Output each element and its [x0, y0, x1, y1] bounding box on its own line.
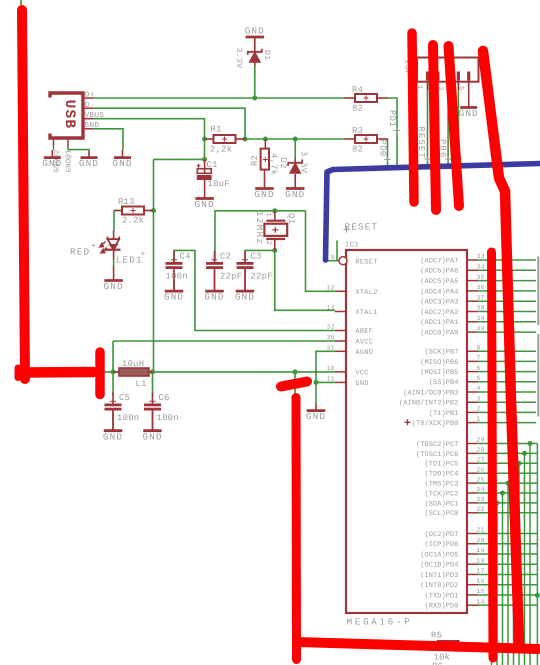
svg-text:39: 39: [477, 315, 485, 322]
svg-text:12MHz: 12MHz: [254, 211, 264, 245]
wire D- net: USB D- down to R1 line: [93, 108, 245, 139]
svg-text:29: 29: [477, 437, 485, 444]
svg-text:(SCK)PB7: (SCK)PB7: [424, 348, 458, 357]
ground: ISP connector: [459, 82, 479, 119]
svg-text:7: 7: [477, 355, 481, 362]
svg-text:GND@1: GND@1: [65, 149, 74, 172]
ground: IC GND pin: [306, 404, 326, 423]
IC1 pin 1 (T0/XCK)PB0: [412, 416, 536, 428]
resistor R1 2,2k: [205, 138, 246, 140]
IC1 pin 13 XTAL1: [327, 305, 378, 318]
svg-text:+: +: [141, 250, 146, 259]
ISP pad 5: [447, 72, 450, 81]
ISP pad 9: [467, 72, 470, 81]
svg-text:AGND: AGND: [355, 349, 373, 357]
svg-text:D-: D-: [85, 102, 95, 110]
svg-text:100n: 100n: [166, 272, 188, 282]
svg-text:(AIN0/INT2)PB2: (AIN0/INT2)PB2: [399, 399, 459, 408]
IC1 pin 11 GND: [327, 376, 369, 389]
IC1 pin 23 (SDA)PC1: [424, 496, 537, 665]
wire: LED1 cathode to GND: [113, 260, 115, 267]
junction: [272, 248, 277, 253]
wire XTAL1 net: C3 to Q1 pin2: [245, 250, 275, 262]
svg-text:GND: GND: [164, 292, 184, 303]
svg-text:MEGA16-P: MEGA16-P: [347, 617, 413, 628]
IC1 pin 6 (MOSI)PB5: [420, 365, 536, 377]
svg-text:C5: C5: [119, 393, 130, 403]
svg-text:RESET: RESET: [345, 222, 379, 233]
IC1 pin 18 (OC1B)PD4: [420, 557, 537, 569]
svg-text:(SDA)PC1: (SDA)PC1: [424, 499, 458, 508]
junction: [151, 208, 156, 213]
svg-text:8: 8: [477, 344, 481, 351]
wire D+ net: R4 to PD1 label stub: [388, 98, 397, 170]
label net PD1: [387, 110, 400, 134]
svg-text:4,7k: 4,7k: [268, 153, 278, 175]
svg-text:16: 16: [477, 578, 485, 585]
svg-text:5: 5: [477, 375, 481, 382]
bus (gray) right edge segment 1: [537, 257, 539, 326]
svg-text:C1: C1: [207, 160, 218, 170]
svg-text:IC1: IC1: [345, 242, 359, 250]
ground: C1: [195, 182, 215, 210]
wire: ISP pin7 down (PB5): [457, 82, 459, 168]
marker stroke: bottom-left long vertical: [292, 398, 302, 660]
ground: D2: [285, 174, 305, 200]
wire: USB GND@2 to GND: [53, 146, 55, 150]
ground: C3: [235, 270, 255, 303]
USB pin GND: [83, 121, 99, 130]
svg-text:(ADC6)PA6: (ADC6)PA6: [420, 267, 458, 276]
marker stroke: ISP area 1: [412, 33, 414, 202]
svg-text:28: 28: [477, 447, 485, 454]
svg-text:GND: GND: [245, 25, 265, 36]
IC1 pin 25 (TMS)PC3: [424, 476, 537, 665]
IC1 pin 16 (INT0)PD2: [420, 578, 537, 590]
IC1 pin 24 (TCK)PC2: [424, 486, 537, 665]
svg-text:10uH: 10uH: [122, 359, 144, 369]
connector X1 USB: [50, 93, 83, 138]
wire XTAL2 net: C2 up and right over Q1: [215, 211, 306, 261]
label net RESET near IC: [343, 222, 378, 233]
IC1 pin 31 AGND: [327, 345, 374, 358]
USB pin GND@1: [65, 138, 74, 173]
svg-text:3.3V: 3.3V: [299, 151, 309, 174]
ISP pad 3: [436, 72, 439, 81]
svg-text:2,2k: 2,2k: [210, 145, 232, 155]
svg-text:(ADC5)PA5: (ADC5)PA5: [420, 277, 458, 286]
resistor R4 82: [345, 97, 389, 99]
svg-text:(INT1)PD3: (INT1)PD3: [420, 571, 458, 580]
ground: USB GND@1 net: [79, 151, 99, 169]
svg-text:Q1: Q1: [286, 213, 296, 225]
svg-text:PD0: PD0: [378, 140, 388, 157]
wire: R13 right to VCC vertical: [144, 210, 154, 212]
svg-text:1: 1: [477, 416, 481, 423]
junction: [293, 137, 298, 142]
svg-text:(RXD)PD0: (RXD)PD0: [424, 602, 458, 611]
capacitor C3 plates: [237, 251, 273, 290]
svg-text:(TCK)PC2: (TCK)PC2: [424, 489, 458, 498]
wire: L1 left node down to C5: [112, 372, 114, 395]
marker stroke: long diagonal right: [483, 51, 519, 643]
IC1 pin 40 (ADC0)PA0: [420, 325, 536, 337]
IC1 pin 39 (ADC1)PA1: [420, 315, 536, 327]
svg-text:10: 10: [327, 365, 335, 372]
svg-text:15: 15: [477, 588, 485, 595]
svg-text:3: 3: [477, 395, 481, 402]
svg-text:(OC2)PD7: (OC2)PD7: [424, 530, 458, 539]
svg-text:C2: C2: [220, 252, 231, 262]
wire XTAL2 net: down to IC pin 12: [306, 211, 335, 291]
svg-text:C3: C3: [251, 252, 262, 262]
wire VBUS: USB VBUS to R1 left node: [93, 119, 204, 139]
marker stroke: small tilted near VCC pin: [281, 382, 307, 387]
svg-text:1: 1: [264, 213, 272, 217]
ISP pad 7: [457, 72, 460, 81]
svg-text:5: 5: [457, 86, 465, 91]
svg-text:23: 23: [477, 496, 485, 503]
svg-text:LED1: LED1: [116, 254, 143, 265]
ground: USB GND@2: [42, 150, 62, 169]
junction: [150, 369, 155, 374]
svg-text:30: 30: [327, 334, 335, 341]
svg-text:2: 2: [477, 406, 481, 413]
wire: D2 to R1-R3 line: [294, 139, 296, 159]
IC1 pin 27 (TDI)PC5: [424, 457, 537, 665]
svg-text:GND: GND: [204, 292, 224, 303]
svg-text:RED: RED: [70, 246, 90, 257]
wire D+ net: USB D+ to R4: [93, 97, 344, 99]
wire VCC net: R1 left down to C1 node: [204, 139, 206, 159]
svg-text:D2: D2: [278, 158, 288, 169]
svg-text:14: 14: [477, 598, 485, 605]
svg-text:33: 33: [477, 253, 485, 260]
svg-text:R3: R3: [352, 126, 363, 136]
IC1 pin 22 (SCL)PC0: [424, 506, 537, 665]
svg-text:R2: R2: [250, 155, 260, 166]
svg-text:20: 20: [477, 537, 485, 544]
IC1 pin 14 (RXD)PD0: [424, 598, 537, 610]
resistor R13 2.2k: [114, 210, 154, 212]
junction: [535, 593, 540, 598]
svg-text:VBUS: VBUS: [85, 111, 105, 120]
USB pin D+: [83, 92, 95, 100]
IC1 pin 19 (OC1A)PD5: [420, 547, 537, 559]
svg-text:24: 24: [477, 486, 485, 493]
IC1 pin 8 (SCK)PB7: [424, 344, 536, 356]
svg-text:(INT0)PD2: (INT0)PD2: [420, 581, 458, 590]
junction: [263, 137, 268, 142]
marker stroke: tick at left end: [15, 368, 22, 378]
IC1 pin 26 (TDO)PC4: [424, 466, 537, 665]
svg-text:GND: GND: [42, 158, 62, 169]
wire: vertical net at right edge x537: [536, 444, 538, 665]
svg-text:GND: GND: [104, 281, 124, 292]
svg-text:13: 13: [327, 305, 335, 312]
svg-text:GND: GND: [142, 431, 162, 442]
ground GND above D1 (inverted): [245, 25, 265, 52]
svg-text:17: 17: [477, 568, 485, 575]
junction: [272, 208, 277, 213]
svg-text:(T1)PB1: (T1)PB1: [429, 409, 459, 418]
IC1 pin 7 (MISO)PB6: [420, 355, 536, 367]
svg-text:GND: GND: [85, 121, 100, 130]
label LED1 name: [116, 250, 146, 265]
svg-text:PD1: PD1: [387, 110, 397, 127]
resistor R3 82: [345, 138, 389, 140]
svg-text:22pF: 22pF: [220, 272, 242, 282]
IC1 pin 33 (ADC7)PA7: [420, 253, 536, 265]
wire: USB GND pin to GND symbol: [93, 129, 123, 150]
LED LED1 RED: [100, 230, 121, 259]
svg-text:19: 19: [477, 547, 485, 554]
svg-text:(ICP)PD6: (ICP)PD6: [424, 540, 458, 549]
wire: ISP pin1 down (RESET): [427, 82, 429, 168]
diode D1 zener symbol: [248, 49, 262, 63]
IC1 pin 9 RESET (bubble): [331, 254, 378, 267]
svg-text:C4: C4: [180, 252, 191, 262]
resistor R3 body: [355, 135, 377, 143]
wire: USB GND@1 to GND: [68, 146, 89, 151]
svg-text:(TOSC1)PC6: (TOSC1)PC6: [416, 450, 459, 459]
diode D1 zener 3.3V: [248, 49, 262, 66]
svg-text:25: 25: [477, 476, 485, 483]
svg-text:38: 38: [477, 305, 485, 312]
ground: C4: [164, 270, 184, 303]
svg-text:R1: R1: [211, 125, 222, 135]
svg-text:32: 32: [327, 324, 335, 331]
svg-text:XTAL1: XTAL1: [355, 309, 377, 317]
svg-text:AREF: AREF: [355, 328, 373, 336]
svg-text:18: 18: [477, 557, 485, 564]
svg-text:GND: GND: [306, 411, 326, 422]
IC1 pin 34 (ADC6)PA6: [420, 264, 536, 276]
svg-text:2: 2: [264, 241, 272, 245]
IC1 pin 37 (ADC3)PA3: [420, 294, 536, 306]
junction: [202, 157, 207, 162]
IC1 pin 29 (TOSC2)PC7: [416, 437, 537, 665]
svg-text:10uF: 10uF: [208, 179, 230, 189]
svg-text:(TXD)PD1: (TXD)PD1: [424, 591, 458, 600]
svg-text:R5: R5: [431, 631, 442, 641]
svg-text:9: 9: [331, 254, 335, 261]
wire D- net: R3 to PD0 label stub: [387, 139, 390, 170]
svg-text:(MOSI)PB5: (MOSI)PB5: [420, 368, 458, 377]
USB pin D-: [83, 102, 95, 110]
junction: [243, 137, 248, 142]
wire: GND node down to GND symbol: [315, 382, 317, 403]
svg-text:GND: GND: [285, 189, 305, 200]
svg-text:L1: L1: [136, 379, 147, 389]
svg-text:31: 31: [327, 345, 335, 352]
inductor L1 10uH: [113, 368, 153, 376]
IC1 pin 10 VCC: [327, 365, 369, 378]
junction: [314, 380, 319, 385]
wire VCC net: drop to bottom (under marker): [294, 372, 296, 644]
marker stroke: right vertical 2: [492, 252, 494, 658]
IC1 pin 15 (TXD)PD1: [424, 588, 537, 600]
ground: C5: [103, 410, 123, 443]
wire VCC net: C1 node left: [154, 158, 205, 160]
marker stroke: left horizontal: [21, 367, 93, 378]
marker stroke: ISP area 2: [433, 45, 436, 210]
svg-text:4: 4: [477, 385, 481, 392]
svg-text:R4: R4: [352, 85, 363, 95]
IC1 pin 36 (ADC4)PA4: [420, 284, 536, 296]
svg-text:USB: USB: [61, 100, 77, 130]
capacitor C5 plates: [105, 393, 140, 432]
svg-text:(ADC1)PA1: (ADC1)PA1: [420, 318, 458, 327]
marker stroke: long left vertical: [22, 10, 25, 379]
svg-text:22: 22: [477, 506, 485, 513]
IC1 pin 2 (T1)PB1: [429, 406, 536, 418]
svg-text:22pF: 22pF: [251, 272, 273, 282]
svg-text:(SCL)PC0: (SCL)PC0: [424, 509, 458, 518]
svg-text:GND: GND: [235, 292, 255, 303]
IC1 pin 3 (AIN0/INT2)PB2: [399, 395, 536, 407]
svg-text:6: 6: [477, 365, 481, 372]
label net PB5: [449, 139, 462, 162]
IC1 pin 32 AREF: [327, 324, 374, 337]
svg-text:37: 37: [477, 294, 485, 301]
ISP pad 1: [426, 72, 429, 81]
wire: L1 right node down to C6: [152, 372, 154, 395]
svg-text:40: 40: [477, 325, 485, 332]
svg-text:12: 12: [327, 285, 335, 292]
wire GND net: to IC pin 11: [316, 381, 335, 383]
IC1 pin 4 (AIN1/OC0)PB3: [403, 385, 536, 397]
svg-text:R13: R13: [118, 197, 135, 207]
label red + before PB0: [405, 419, 411, 425]
diode D2 symbol: [288, 160, 302, 174]
svg-text:34: 34: [477, 264, 485, 271]
ground: USB GND pin net: [112, 150, 132, 169]
resistor R4 body: [355, 94, 377, 102]
svg-text:+: +: [91, 242, 96, 251]
capacitor C4 plates: [166, 251, 191, 290]
junction: [293, 369, 298, 374]
svg-text:(ADC2)PA2: (ADC2)PA2: [420, 308, 458, 317]
wire: off-page stub top-left: [20, 0, 22, 6]
resistor R13 body: [122, 207, 144, 215]
label LED1 RED+: [70, 242, 96, 257]
svg-text:D+: D+: [85, 92, 95, 100]
wire: D1 anode to D+ line: [254, 66, 256, 99]
marker stroke: short vertical near L1: [95, 352, 105, 395]
svg-text:(ADC0)PA0: (ADC0)PA0: [420, 329, 458, 338]
svg-text:(OC1A)PD5: (OC1A)PD5: [420, 550, 458, 559]
wire AGND net: IC pin 31 down: [316, 351, 335, 382]
resistor R5 10k: [427, 641, 468, 650]
svg-text:26: 26: [477, 466, 485, 473]
wire RESET net: label stub: [336, 240, 338, 260]
ground: C6: [142, 410, 162, 443]
svg-text:2.2k: 2.2k: [122, 216, 144, 226]
junction: [202, 137, 207, 142]
capacitor C1 10uF (polarized): [197, 159, 212, 182]
svg-text:(MISO)PB6: (MISO)PB6: [420, 358, 458, 367]
ground: C2: [204, 270, 224, 303]
svg-text:(TDI)PC5: (TDI)PC5: [424, 460, 458, 469]
wire VCC net: L1 line to IC pin 10 (left part hidden under marker): [60, 371, 335, 373]
svg-text:GND: GND: [103, 431, 123, 442]
svg-text:GND: GND: [79, 158, 99, 169]
svg-text:GND: GND: [112, 158, 132, 169]
svg-text:RESET: RESET: [355, 258, 377, 266]
svg-text:(ADC3)PA3: (ADC3)PA3: [420, 298, 458, 307]
IC1 pin 38 (ADC2)PA2: [420, 305, 536, 317]
marker stroke: ISP area 3: [449, 46, 460, 206]
wire: R13 left lead corner: [114, 210, 123, 212]
svg-text:GND: GND: [195, 199, 215, 210]
wire: ISP pin3 down: [437, 82, 439, 168]
wire AREF net: C4 to IC pin 32: [174, 250, 335, 330]
svg-text:(T0/XCK)PB0: (T0/XCK)PB0: [412, 419, 459, 428]
wire RESET net: to IC pin 9 bubble: [326, 260, 339, 262]
svg-text:C6: C6: [159, 393, 170, 403]
svg-text:R6: R6: [432, 662, 443, 665]
svg-text:21: 21: [477, 527, 485, 534]
ground: R2: [254, 170, 274, 200]
svg-text:100n: 100n: [157, 413, 179, 423]
svg-text:(TDO)PC4: (TDO)PC4: [424, 470, 458, 479]
wire AVCC net: horizontal to IC pin 30: [113, 340, 335, 342]
USB pin GND@2: [52, 138, 61, 173]
svg-text:36: 36: [477, 284, 485, 291]
wire: R13 to LED1: [113, 211, 115, 231]
capacitor C6 plates: [144, 393, 179, 432]
op-amp? no: IC U1 box MEGA16-P: [346, 250, 467, 613]
wire: ISP pin5 down (PB6): [447, 82, 449, 168]
svg-text:GND: GND: [459, 108, 479, 119]
svg-text:(ADC7)PA7: (ADC7)PA7: [420, 256, 458, 265]
svg-text:11: 11: [327, 376, 335, 383]
svg-text:(TMS)PC3: (TMS)PC3: [424, 480, 458, 489]
svg-text:(SS)PB4: (SS)PB4: [429, 378, 459, 387]
wire XTAL1 net: down to IC pin 13: [275, 250, 335, 310]
marker stroke: bottom horizontal: [297, 642, 538, 649]
label net RESET (ISP): [416, 127, 431, 163]
wire AVCC net: corner down to L1 left node: [112, 341, 114, 372]
junction: [252, 96, 257, 101]
svg-text:(OC1B)PD4: (OC1B)PD4: [420, 561, 458, 570]
junction: [111, 369, 116, 374]
svg-text:VCC: VCC: [355, 370, 368, 378]
svg-text:XTAL2: XTAL2: [355, 289, 377, 297]
resistor R2 4,7k (vertical): [261, 139, 269, 170]
IC1 pin 35 (ADC5)PA5: [420, 274, 536, 286]
svg-text:82: 82: [352, 104, 363, 114]
IC1 pin 21 (OC2)PD7: [424, 527, 537, 539]
IC1 pin 17 (INT1)PD3: [420, 568, 537, 580]
label net PB6: [438, 139, 451, 162]
resistor R1 body: [214, 135, 236, 143]
svg-text:GND: GND: [355, 380, 368, 388]
connector SV1 ISP header: [417, 58, 479, 82]
capacitor C2 plates: [206, 251, 242, 290]
wire: bottom horizontal to R5 (under marker): [295, 643, 427, 645]
wire VCC net: vertical down to L1 right node: [153, 159, 155, 372]
svg-text:82: 82: [352, 145, 363, 155]
svg-text:D1: D1: [262, 50, 271, 60]
crystal Q1 12MHz: [264, 211, 287, 251]
IC1 pin 5 (SS)PB4: [429, 375, 536, 387]
IC1 pin 30 AVCC: [327, 334, 374, 347]
IC1 pin 28 (TOSC1)PC6: [416, 447, 537, 665]
svg-text:(AIN1/OC0)PB3: (AIN1/OC0)PB3: [403, 388, 458, 397]
svg-text:35: 35: [477, 274, 485, 281]
